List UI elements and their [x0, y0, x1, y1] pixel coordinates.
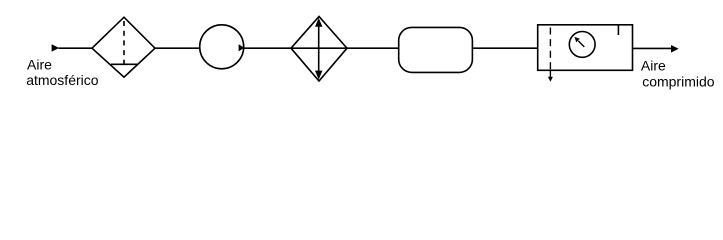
wire filter to compressor: [155, 47, 200, 49]
dryer arrowhead down: [315, 71, 322, 80]
compressor circle: [200, 25, 244, 69]
filter element dashed line: [123, 21, 125, 64]
wire dryer to tank: [347, 47, 399, 49]
dryer arrowhead up: [315, 18, 322, 27]
drain line: [549, 70, 551, 78]
output arrowhead: [671, 45, 679, 53]
wire compressor to dryer: [244, 47, 291, 49]
svg-text:Aire: Aire: [27, 57, 52, 73]
dryer through line: [291, 47, 347, 49]
wire inlet to filter: [59, 47, 93, 49]
service unit body: [538, 25, 633, 71]
pressure gauge circle: [569, 32, 595, 58]
dryer diamond outline: [291, 17, 347, 82]
service unit filter dashed line: [549, 28, 551, 71]
wire service unit to output: [633, 47, 672, 49]
wire tank to service unit: [472, 47, 537, 49]
svg-text:comprimido: comprimido: [642, 74, 715, 90]
lubricator tick: [617, 25, 619, 35]
filter with water separator: diamond outline: [92, 17, 155, 77]
input arrowhead: [52, 44, 60, 51]
drain arrowhead: [548, 77, 553, 82]
dryer vertical arrow shaft: [318, 25, 320, 73]
air receiver tank: [399, 27, 473, 72]
gauge needle arrowhead: [574, 37, 579, 42]
compressor flow arrowhead: [239, 44, 245, 51]
gauge needle: [578, 41, 584, 47]
separator chord: [111, 63, 138, 65]
svg-text:atmosférico: atmosférico: [26, 72, 99, 88]
svg-text:Aire: Aire: [641, 58, 666, 74]
